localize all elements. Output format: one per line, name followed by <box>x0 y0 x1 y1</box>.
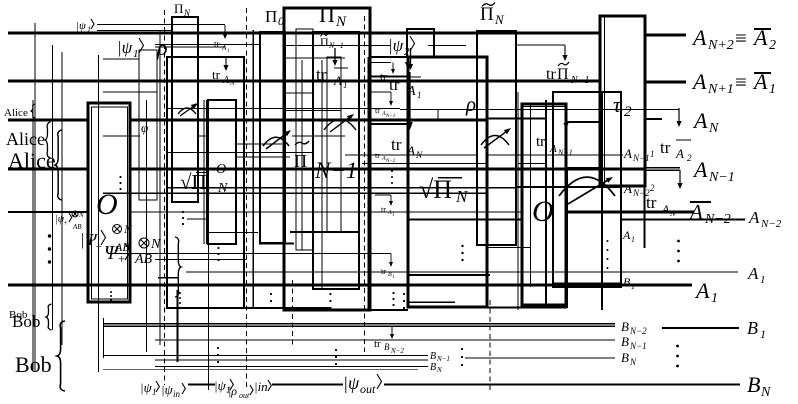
wire Bob gray rail y=368.5 <box>103 369 418 371</box>
svg-text:A: A <box>748 208 760 227</box>
svg-text:A: A <box>675 146 684 161</box>
svg-text:N−1: N−1 <box>436 355 450 363</box>
svg-text:|ψ: |ψ <box>343 373 360 393</box>
meter M5 wide <box>559 177 615 196</box>
svg-text:tr: tr <box>391 135 402 154</box>
svg-text:N: N <box>150 237 161 252</box>
wire vertical left rail x=33 <box>32 100 34 370</box>
wire vertical x=208.5 lower <box>208 244 210 390</box>
arrow tr_Abar1 fig3 <box>334 48 336 62</box>
arrow small x=393 upper <box>392 63 394 72</box>
gate box O U1 (Alice operation, left) <box>88 103 130 302</box>
svg-text:O: O <box>216 162 226 177</box>
svg-text:1: 1 <box>631 235 635 244</box>
dots x=393 <box>392 292 394 294</box>
svg-text:√Π: √Π <box>419 175 452 204</box>
svg-text:|ρ: |ρ <box>228 384 237 398</box>
svg-text:O: O <box>532 195 554 228</box>
dots x=111 low <box>110 291 112 293</box>
wire stub y=58 fig3 <box>284 57 345 59</box>
wire vertical x=206.5 pair b <box>206 100 208 244</box>
wire B_1 output stub <box>662 327 739 329</box>
svg-text:N+1: N+1 <box>707 82 734 97</box>
wire fig4 inner bottom y=302 <box>407 301 455 303</box>
svg-text:N: N <box>123 222 133 236</box>
wire vertical brace rail x=62 <box>61 52 63 345</box>
svg-text:tr: tr <box>375 151 380 160</box>
svg-text:A: A <box>752 25 768 50</box>
svg-text:tr: tr <box>380 71 387 83</box>
wire A_1 thick rail y=285 <box>8 284 692 287</box>
wire vertical rail x=368 <box>367 57 369 310</box>
wire stub y=110.5 fig3 <box>284 110 341 112</box>
svg-text:2: 2 <box>769 38 776 53</box>
arrow tr Pi~_N-1 <box>564 45 566 57</box>
wire stub y=232 left <box>209 232 258 234</box>
wire A_N-2 rail y=212 thin mid segment <box>130 211 522 213</box>
arrow tr_B_N-2 x=392 <box>391 326 393 336</box>
svg-text:Π: Π <box>320 35 329 49</box>
svg-text:A: A <box>752 69 768 94</box>
wire stub small arrow2 <box>375 194 391 196</box>
wire vertical rail x=103 <box>103 318 105 358</box>
svg-text:1: 1 <box>760 327 766 341</box>
arrow tr_A_N <box>225 57 227 67</box>
svg-text:N: N <box>669 209 676 218</box>
svg-text:N: N <box>494 12 505 27</box>
arrow small tr_A1 x=391 <box>390 195 392 203</box>
gate box Pi~_N U10 <box>477 31 516 245</box>
wire thin y=163.5 <box>362 163 487 165</box>
wire A_N-1 double output <box>645 167 680 169</box>
meter M3 <box>324 119 356 130</box>
gate box O U5 (right) <box>522 104 566 305</box>
wire y=193 long <box>103 192 487 194</box>
meter M1 <box>178 108 196 114</box>
wire A_N rail y=120 <box>8 119 88 122</box>
wire thick stub y=76.5 <box>370 75 407 77</box>
wire rho y=44.3 <box>155 43 259 45</box>
svg-text:Bob: Bob <box>12 312 40 331</box>
brace bob medium <box>46 304 52 330</box>
svg-text:≡: ≡ <box>735 26 747 50</box>
svg-text:1: 1 <box>133 48 139 60</box>
svg-text:N−2: N−2 <box>385 159 396 164</box>
wire A_N-1 rail y=169 main segment <box>130 168 645 171</box>
svg-text:Alice: Alice <box>4 107 28 119</box>
gate box narrow U8 <box>296 29 313 250</box>
dots x=183 <box>182 211 184 213</box>
svg-text:in: in <box>173 389 181 399</box>
svg-text:|ψ: |ψ <box>161 382 174 397</box>
svg-text:N−2: N−2 <box>632 188 650 198</box>
dashed boundary x=164 <box>164 10 166 385</box>
arrow tr_A_N-1 fig5 <box>565 108 567 125</box>
svg-text:N−1: N−1 <box>314 158 357 183</box>
wire vertical rail x=98 <box>98 55 100 372</box>
wire stub y=259.5 <box>155 259 246 261</box>
dots inside O box <box>119 176 121 178</box>
svg-text:B: B <box>621 319 629 334</box>
gate box Pi_N projector U3 <box>172 17 198 202</box>
svg-text:|ψ: |ψ <box>140 380 153 395</box>
svg-text:N: N <box>335 14 347 30</box>
gate box Pi_0 U4 <box>260 32 285 243</box>
svg-text:N: N <box>455 187 469 206</box>
svg-text:tr: tr <box>214 39 220 49</box>
svg-text:N−1: N−1 <box>708 170 735 185</box>
wire vertical x=546 <box>545 100 547 308</box>
figure-3 outer box Pi_N <box>284 8 370 310</box>
wire rho second y=47 <box>155 46 225 48</box>
wire edge y=232 <box>290 231 359 233</box>
wire mid y=253 <box>108 253 391 255</box>
wire B_N-1 rail y=340 <box>155 339 615 341</box>
wire fig5 box lower double line <box>552 282 620 284</box>
wire vertical x=518 <box>517 92 519 310</box>
wire vertical x=602 <box>601 92 603 310</box>
dashed boundary x=490 <box>489 300 491 390</box>
wire bottom bridge y=310 <box>370 309 408 311</box>
svg-text:tr: tr <box>374 338 381 350</box>
wire corner A_N trace x=679 <box>678 108 680 123</box>
arrow small tr_A_N- x=391 <box>390 92 392 103</box>
arrow A_N-1 trace x=680 <box>679 170 681 185</box>
gate box thin column U3a <box>139 50 157 200</box>
svg-text:+: + <box>117 251 126 266</box>
svg-text:1: 1 <box>87 25 91 34</box>
arrow small tr_B1 x=391 <box>390 254 392 265</box>
svg-text:N−2: N−2 <box>704 212 731 227</box>
svg-text:A: A <box>688 200 703 224</box>
svg-text:1: 1 <box>417 90 422 100</box>
svg-text:Alice: Alice <box>8 148 56 173</box>
wire vertical x=178 lower <box>177 290 179 362</box>
figure-2 outer box <box>167 57 244 308</box>
dashed boundary x=292 <box>292 280 294 345</box>
svg-text:1: 1 <box>760 274 766 286</box>
wire vertical long rail x=146 <box>146 100 148 352</box>
svg-text:A: A <box>661 202 670 216</box>
svg-text:ρ: ρ <box>465 92 476 116</box>
svg-text:τ: τ <box>613 92 622 117</box>
svg-text:|ψ: |ψ <box>76 20 86 32</box>
svg-text:Π: Π <box>557 66 569 83</box>
wire corner vertical x=438 <box>437 110 439 120</box>
wire B_N rail y=360 <box>155 359 428 361</box>
wire vertical x=567 lower <box>566 168 568 308</box>
svg-text:B: B <box>384 342 390 352</box>
svg-text:tr: tr <box>212 67 221 82</box>
wire psi_1 input second y=30.5 <box>97 30 172 32</box>
svg-text:B: B <box>430 351 436 362</box>
wire stub small arrow0 <box>371 62 391 64</box>
dots x=677 low <box>676 345 679 348</box>
svg-text:N−2: N−2 <box>760 218 782 230</box>
wire thick stub y=124 <box>370 123 409 125</box>
gate box small U12 on fig4 top <box>407 29 434 57</box>
svg-text:A: A <box>623 181 632 196</box>
svg-text:2: 2 <box>624 104 632 120</box>
svg-text:tr: tr <box>381 205 386 214</box>
svg-text:B: B <box>747 318 758 338</box>
wire stub y=93 fig3 <box>284 92 313 94</box>
wire O2 box double top <box>522 106 566 108</box>
svg-text:A: A <box>694 278 710 303</box>
svg-text:N: N <box>760 385 771 399</box>
arrow psi2 trace pair a <box>407 45 409 68</box>
svg-text:N: N <box>415 150 423 160</box>
svg-text:2: 2 <box>650 183 655 193</box>
wire vertical x=530 inner O2 <box>530 104 532 287</box>
dots x=330 <box>329 293 331 295</box>
wire B_N bottom rail segments y=384.5 <box>188 383 215 385</box>
gate box O U1 inner double border <box>92 107 128 299</box>
meter M2 <box>263 137 289 146</box>
wire vertical rail x=322 <box>321 60 323 289</box>
svg-text:Π: Π <box>319 2 335 27</box>
svg-text:N: N <box>436 366 442 374</box>
arrow trace tr_A_N big x=410 <box>409 72 411 124</box>
wire stub y=136 fig3 <box>292 135 345 137</box>
svg-text:φ: φ <box>141 120 148 135</box>
wire A_N-2 rail y=212 left segment <box>8 211 88 213</box>
svg-text:≡: ≡ <box>735 70 747 94</box>
wire A_N-2 second rail y=219.5 <box>407 218 522 220</box>
dots x=462 fig4 <box>461 245 463 247</box>
svg-text:tr: tr <box>316 65 327 84</box>
svg-text:1: 1 <box>343 80 348 90</box>
wire box bottom segment y=244 <box>259 243 294 245</box>
svg-text:B: B <box>430 362 436 373</box>
svg-text:B: B <box>747 372 760 397</box>
svg-text:A: A <box>222 75 230 86</box>
wire stub y=144 <box>236 143 282 145</box>
svg-text:A: A <box>623 146 632 161</box>
wire vertical rail x=160 <box>159 30 161 345</box>
svg-text:ρ: ρ <box>156 35 168 60</box>
dots x=404 <box>403 293 405 295</box>
wire vertical x=253 <box>252 30 254 308</box>
gate box tau_2 inner line <box>604 16 606 186</box>
wire vertical brace rail x=52 <box>52 45 54 330</box>
wire stub to tr Pi~ arrow <box>516 44 565 46</box>
wire A_N-2 rail y=212 thick right segment <box>567 211 694 214</box>
svg-text:N−2: N−2 <box>629 326 647 336</box>
wire A_N+1 rail y=81 <box>8 80 600 83</box>
svg-text:B: B <box>621 350 629 365</box>
svg-text:N−1: N−1 <box>557 148 573 157</box>
svg-text:out: out <box>239 391 250 399</box>
svg-text:tr: tr <box>375 106 380 115</box>
svg-text:tr: tr <box>381 267 386 276</box>
svg-text:A: A <box>406 84 416 99</box>
label Abar_N-2 right <box>690 201 711 203</box>
svg-text:A: A <box>406 143 415 158</box>
svg-text:N−1: N−1 <box>328 41 344 50</box>
dots x=180 low <box>179 292 181 294</box>
wire vertical rail x=302 <box>301 60 303 250</box>
meter M4 <box>481 136 509 145</box>
wire stub y=247.5 <box>487 247 530 249</box>
svg-text:+: + <box>63 219 68 227</box>
svg-text:tr: tr <box>546 66 556 83</box>
svg-text:2: 2 <box>404 46 410 58</box>
gate box Pi~_N double top edge <box>477 33 516 35</box>
wire bottom bridge y=308 <box>245 307 330 309</box>
svg-text:N−1: N−1 <box>632 153 650 163</box>
wire B_N right rail y=358 <box>465 357 615 359</box>
svg-text:A: A <box>747 264 759 283</box>
wire y=152.5 fig2 <box>167 152 313 154</box>
dots x=392 upper <box>391 170 393 172</box>
figure-5 box <box>553 92 621 287</box>
brace alice medium <box>45 122 51 158</box>
wire thick y=275 <box>407 274 490 276</box>
brace alice small <box>31 104 35 118</box>
wire vertical x=644.5 lower <box>643 186 645 248</box>
svg-text:N: N <box>629 357 637 367</box>
svg-text:N: N <box>78 211 84 219</box>
wire Bob rail y=355.5 <box>103 355 428 357</box>
svg-text:|ψ: |ψ <box>117 38 133 57</box>
wire tau2 feed y=109 <box>167 108 400 110</box>
dots big left <box>48 234 51 237</box>
svg-text:1: 1 <box>650 149 655 159</box>
svg-text:out: out <box>360 382 376 396</box>
wire stub y=277.5 <box>158 277 178 279</box>
gate box inner U11 <box>566 122 602 168</box>
svg-text:N−1: N−1 <box>385 114 395 119</box>
svg-text:A: A <box>333 73 342 88</box>
svg-text:B: B <box>621 334 629 349</box>
wire stub small arrow1 <box>371 91 391 93</box>
svg-text:N+2: N+2 <box>707 38 734 53</box>
wire stub y=92 <box>103 91 157 93</box>
gate box Pi~_N-1 U7 <box>313 32 359 289</box>
svg-text:|ψ: |ψ <box>214 378 227 393</box>
dots x=462 low <box>461 348 463 350</box>
svg-text:A: A <box>691 69 707 94</box>
brace bob large <box>57 321 65 391</box>
svg-text:tr: tr <box>536 134 545 150</box>
svg-text:N: N <box>229 79 235 87</box>
svg-text:|ψ: |ψ <box>388 36 404 55</box>
svg-text:A: A <box>692 157 708 182</box>
dots x=218 <box>217 247 219 249</box>
svg-text:tr: tr <box>660 138 671 157</box>
svg-text:1: 1 <box>227 49 230 54</box>
wire vertical left rail x=35 <box>34 23 36 372</box>
svg-text:|in: |in <box>254 379 268 394</box>
svg-text:A: A <box>692 108 708 133</box>
gate box inner narrow U9 <box>327 57 341 232</box>
wire B_N-2 double rail y=324 <box>103 323 615 325</box>
wire y=187.5 long <box>167 187 517 189</box>
svg-text:Π: Π <box>174 1 183 16</box>
brace ket closing right x=180 <box>175 237 181 297</box>
wire bottom y=307.5 right <box>487 306 567 308</box>
gate box tau_2 U6 (tall right) <box>600 16 645 186</box>
brace alice large <box>55 130 62 200</box>
dashed boundary x=364 <box>364 16 366 352</box>
dots x=678 mid <box>677 240 680 243</box>
svg-text:√Π: √Π <box>180 170 207 194</box>
svg-text:1: 1 <box>631 282 635 291</box>
svg-text:N: N <box>217 181 228 196</box>
dots x=607 column <box>607 240 609 242</box>
wire psi_1 input y=24.5 <box>97 24 225 26</box>
svg-text:O: O <box>96 188 118 221</box>
wire fig5 inner bottom y=187 <box>517 186 621 188</box>
wire A_N rail stub right of tau2 box <box>645 118 662 120</box>
svg-text:+: + <box>95 241 102 253</box>
svg-text:Bob: Bob <box>15 352 52 377</box>
svg-text:N−2: N−2 <box>390 347 404 355</box>
svg-text:N: N <box>708 121 719 136</box>
svg-text:AB: AB <box>134 252 153 267</box>
svg-text:1: 1 <box>392 275 395 280</box>
svg-text:Π: Π <box>265 7 277 26</box>
svg-text:Π: Π <box>480 4 494 25</box>
gate box sqrt(Pi_N)^O U2 <box>208 100 236 244</box>
arrow head psi2 a <box>405 62 410 68</box>
dots x=336 low <box>335 349 337 351</box>
svg-text:A: A <box>622 228 631 242</box>
wire top edge y=57 bridge <box>370 56 408 58</box>
wire stub y=136b <box>197 135 208 137</box>
svg-text:1: 1 <box>711 291 718 306</box>
dots x=271 <box>270 293 272 295</box>
dots x=218 low <box>217 347 219 349</box>
wire A_1 thin rail y=272 <box>186 271 738 273</box>
figure-4 outer box sqrt(Pi_N) <box>408 57 487 307</box>
wire A_N+2 rail y=33 <box>8 32 600 35</box>
arrow psi2 trace pair b <box>410 48 412 66</box>
svg-text:N−1: N−1 <box>629 341 647 351</box>
svg-text:0: 0 <box>278 14 284 28</box>
wire A_N-1 rail y=169 left segment <box>8 168 88 171</box>
wire A_N+1 output stub <box>645 81 686 84</box>
wire rho2 y=155 <box>345 154 477 156</box>
wire phi stub y=59 <box>103 58 139 60</box>
svg-text:A: A <box>691 25 707 50</box>
svg-text:A: A <box>549 143 557 155</box>
svg-text:1: 1 <box>769 82 776 97</box>
wire vertical x=204 pair a <box>203 100 205 244</box>
svg-text:B: B <box>623 275 631 289</box>
svg-text:2: 2 <box>687 153 692 163</box>
svg-text:N−1: N−1 <box>570 75 589 86</box>
arrow tr_A1 top <box>224 25 226 36</box>
svg-text:Alice: Alice <box>6 129 45 149</box>
dashed boundary x=246 <box>246 8 248 390</box>
wire phi stub y=136 <box>103 135 140 137</box>
svg-text:tr: tr <box>389 75 400 94</box>
svg-text:1: 1 <box>392 213 395 218</box>
wire A_N+2 output stub <box>645 34 686 37</box>
wire Bob rail y=366 <box>155 366 428 368</box>
wire stub y=219 left <box>187 218 208 220</box>
svg-text:1: 1 <box>152 387 157 397</box>
svg-text:N: N <box>183 8 191 18</box>
wire stub y=157 <box>236 156 290 158</box>
